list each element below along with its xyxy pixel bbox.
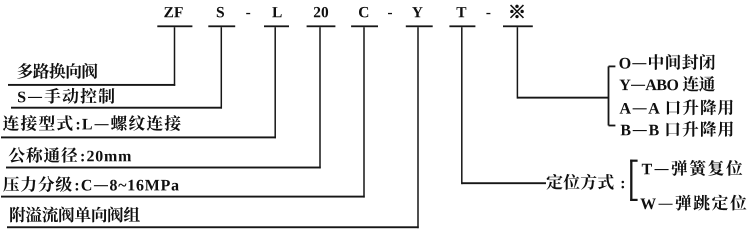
wire row 6 [7,226,419,228]
underline C [351,25,378,27]
wire T vertical [461,27,463,184]
option T—弹簧复位 [642,160,743,176]
label 定位方式: [547,174,625,190]
code text 20 [314,7,328,18]
underline ※ [503,25,533,27]
option A—A 口升降用 [620,99,733,115]
wire ※ vertical [517,27,519,98]
code text Y [412,7,423,17]
wire row 5 [1,196,365,198]
bracket 1 top arm [609,66,616,68]
wire ZF vertical [174,27,176,86]
code dash 3 [486,13,490,14]
option O—中间封闭 [620,54,715,70]
wire row 1 [8,84,175,86]
bracket 1 vertical [608,66,610,125]
wire L vertical [274,27,276,138]
code text L [272,7,281,17]
wire row 2 [11,107,222,109]
underline S [208,25,235,27]
option Y—ABO 连通 [620,76,716,92]
code text T [457,7,467,17]
underline T [449,25,475,27]
wire S vertical [221,27,223,108]
wire ※ branch horizontal [517,97,608,99]
bracket 2 vertical [630,160,632,201]
code dash 1 [246,13,250,14]
label 多路换向阀 [17,63,97,79]
wire T branch horizontal [462,182,546,184]
code text S [217,7,224,18]
underline Y [406,25,433,27]
option W—弹跳定位 [640,195,746,211]
label S—手动控制 [18,88,114,104]
code text C [359,7,368,18]
underline 20 [307,25,336,27]
underline L [264,25,289,27]
code mark ※ [511,5,524,18]
wire C vertical [363,27,365,197]
bracket 2 bottom arm [630,199,637,201]
label 附溢流阀单向阀组 [10,207,140,223]
wire 20 vertical [319,27,321,168]
label 压力分级:C—8~16MPa [3,176,179,192]
wire row 3 [1,136,276,138]
label 连接型式:L—螺纹连接 [3,115,181,131]
label 公称通径:20mm [9,147,131,163]
code dash 2 [388,13,392,14]
underline ZF [157,25,192,27]
wire Y vertical [417,27,419,228]
code text ZF [164,7,182,17]
bracket 1 bottom arm [609,125,616,127]
bracket 2 top arm [630,160,637,162]
option B—B 口升降用 [621,121,733,137]
wire row 4 [6,167,321,169]
